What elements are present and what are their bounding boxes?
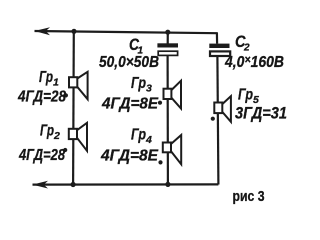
svg-text:рис 3: рис 3 (233, 189, 265, 205)
polarity dot Гр2 (63, 148, 67, 152)
svg-text:50,0×50В: 50,0×50В (99, 54, 159, 71)
polarity dot Гр5 (211, 117, 215, 121)
polarity dot Гр3 (158, 101, 162, 105)
svg-text:Гр4: Гр4 (131, 127, 152, 147)
svg-text:4ГД=28: 4ГД=28 (17, 88, 66, 105)
wire: left vertical branch (72, 31, 75, 184)
speaker Гр3 (164, 81, 182, 109)
node: bottom-left junction (71, 182, 76, 187)
arrow: top-left lead (35, 27, 51, 35)
node: top-left junction (71, 29, 76, 34)
svg-text:3ГД=31: 3ГД=31 (235, 104, 287, 122)
svg-text:4ГД=8Е: 4ГД=8Е (101, 95, 159, 112)
node: bottom-middle junction (165, 182, 170, 187)
wire: bottom bus (33, 183, 219, 185)
svg-text:4,0×160В: 4,0×160В (224, 52, 284, 70)
capacitor C2 (209, 44, 230, 56)
wire: top bus (35, 31, 217, 33)
wire: middle branch stub (top node to C1) (167, 32, 169, 44)
speaker Гр4 (163, 135, 181, 164)
svg-text:Гр3: Гр3 (131, 75, 152, 95)
svg-text:Гр2: Гр2 (40, 123, 60, 143)
wire: middle branch (C1 down to bottom node) (167, 56, 169, 185)
svg-text:Гр1: Гр1 (39, 69, 59, 89)
polarity dot Гр1 (64, 93, 68, 97)
wire: right vertical branch (C2 down to bottom bus) (217, 56, 218, 184)
svg-text:C2: C2 (235, 32, 250, 54)
wire: right branch bend down to C2 (216, 32, 218, 43)
svg-text:4ГД=8Е: 4ГД=8Е (100, 148, 159, 165)
speaker Гр5 (214, 96, 231, 122)
polarity dot Гр4 (158, 160, 162, 164)
speaker Гр1 (69, 72, 88, 99)
svg-text:4ГД=28: 4ГД=28 (18, 147, 65, 164)
arrow: bottom-left lead (32, 181, 48, 189)
capacitor C1 (157, 43, 178, 55)
speaker Гр2 (69, 123, 87, 151)
node: top-middle junction (165, 30, 170, 35)
svg-text:Гр5: Гр5 (238, 87, 259, 107)
